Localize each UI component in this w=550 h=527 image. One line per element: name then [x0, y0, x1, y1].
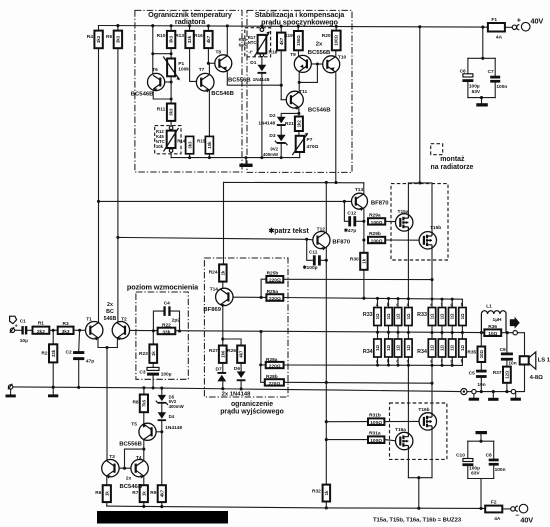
resistor R36: [484, 329, 501, 337]
wire R7 bottom: [143, 502, 145, 506]
svg-text:100Ω: 100Ω: [370, 420, 382, 426]
svg-text:+: +: [15, 323, 18, 329]
node R2 tap: [52, 329, 55, 332]
wire C10 C8 ground stem: [480, 434, 482, 441]
diode D6: [237, 371, 246, 381]
svg-text:R10: R10: [157, 33, 166, 39]
svg-text:na radiatorze: na radiatorze: [431, 164, 474, 171]
svg-text:R2: R2: [41, 351, 47, 357]
node C5 bottom: [480, 390, 483, 393]
resistor R20: [332, 31, 341, 51]
node T2 collector takeoff: [116, 236, 119, 239]
svg-text:R37: R37: [493, 370, 502, 376]
svg-text:100Ω: 100Ω: [371, 220, 383, 226]
svg-text:1Ω: 1Ω: [440, 345, 445, 351]
wire R28 jog: [261, 365, 265, 382]
node D1 bottom: [260, 156, 263, 159]
wire T12 base line: [118, 237, 313, 240]
wire bottom bracket: [468, 97, 495, 99]
transistor T12: [313, 232, 330, 251]
node clamp to T16b source: [430, 382, 433, 385]
transistor T13: [352, 193, 368, 211]
svg-text:T3: T3: [109, 454, 115, 460]
wire R26 branch: [223, 339, 241, 346]
transistor T10: [323, 56, 340, 73]
svg-text:2p2: 2p2: [172, 318, 181, 324]
wire base tie T3 T4: [115, 467, 131, 469]
svg-text:R28a: R28a: [266, 357, 278, 363]
transistor T8: [215, 55, 232, 72]
svg-text:2x: 2x: [316, 42, 323, 48]
resistor R29a: [368, 218, 385, 226]
node base tie: [316, 63, 319, 66]
wire R9 bottom: [161, 502, 163, 507]
wire R5 top stub: [117, 26, 119, 31]
wire C10 C8 top bracket: [468, 440, 494, 442]
wire R13 top stub: [189, 26, 191, 31]
node T9 emitter tap: [298, 81, 301, 84]
svg-text:R7: R7: [132, 490, 138, 496]
resistor R5: [114, 31, 122, 49]
svg-text:T6: T6: [152, 67, 158, 73]
svg-text:1k: 1k: [324, 490, 329, 495]
wire ground stem R2: [52, 387, 54, 394]
wire L1 loop: [481, 311, 506, 333]
svg-text:C8: C8: [486, 452, 492, 458]
wire T6 base lead: [160, 81, 171, 83]
wire T8 emitter L: [227, 71, 281, 85]
wire T2 emitter: [116, 338, 118, 347]
svg-text:✱patrz tekst: ✱patrz tekst: [269, 227, 310, 235]
svg-text:−: −: [515, 513, 519, 520]
wire upper source bus right: [283, 298, 462, 300]
bank letters bottom: [376, 359, 464, 364]
resistor R19: [294, 31, 303, 50]
svg-text:T12: T12: [317, 226, 326, 232]
svg-text:100Ω: 100Ω: [371, 238, 383, 244]
svg-text:7k5: 7k5: [142, 399, 147, 407]
node bracket stem: [480, 96, 483, 99]
svg-text:220Ω: 220Ω: [269, 278, 281, 284]
potentiometer P1: [163, 57, 180, 81]
node T11 emitter branch: [297, 112, 300, 115]
wire ground stem input: [10, 389, 12, 394]
svg-text:4k7: 4k7: [159, 489, 164, 497]
black bar bottom: [97, 511, 228, 524]
node tap right: [170, 52, 173, 55]
node R26 branch: [221, 337, 224, 340]
wire mirror link: [125, 449, 144, 468]
svg-text:h: h: [461, 359, 464, 364]
svg-text:R24: R24: [209, 270, 218, 276]
node D3 bottom: [280, 156, 283, 159]
svg-text:D3: D3: [269, 133, 275, 139]
wire R31b to T16b gate: [384, 420, 420, 422]
resistor R25a: [266, 294, 283, 302]
svg-text:220Ω: 220Ω: [269, 363, 281, 369]
fuse F1: [488, 23, 505, 32]
svg-text:470Ω: 470Ω: [307, 144, 319, 150]
svg-text:T16a: T16a: [395, 427, 406, 433]
wire C6 stem: [467, 58, 469, 74]
resistor R21: [295, 117, 303, 132]
svg-text:R26: R26: [227, 348, 236, 354]
wire R2 to 0V: [52, 362, 54, 387]
box R17 dashed: [245, 28, 271, 57]
svg-text:C5: C5: [469, 370, 475, 376]
wire ground stem c: [515, 392, 517, 398]
node R32 bottom: [325, 506, 328, 509]
svg-text:C6: C6: [460, 68, 466, 74]
svg-text:R1: R1: [38, 321, 44, 327]
svg-text:100µ: 100µ: [469, 465, 480, 471]
wire +40V top bus: [99, 26, 488, 28]
node R20 top: [335, 25, 338, 28]
svg-text:BC556B: BC556B: [228, 77, 251, 83]
node T6 base on P1-R11 line: [170, 80, 173, 83]
wire main output bus: [125, 330, 513, 332]
svg-text:✱100p: ✱100p: [303, 265, 318, 271]
wire T12 collector up: [325, 182, 327, 233]
wire C11 right lead: [321, 259, 327, 261]
svg-text:1Ω: 1Ω: [386, 345, 391, 351]
svg-text:d: d: [407, 302, 410, 307]
node ground mid stem: [492, 390, 495, 393]
wire +40V vertical to mosfet drains: [419, 27, 421, 183]
wire bottom bracket C10 C8: [468, 478, 494, 480]
plug tick top: [517, 25, 520, 30]
node R5 top: [116, 24, 119, 27]
wire lower source bus right: [284, 364, 463, 366]
svg-text:C9: C9: [500, 347, 506, 353]
box Ogranicznik temperatury radiatora: [135, 10, 242, 172]
resistor R18: [277, 33, 285, 51]
node C6 C7 branch: [481, 26, 484, 29]
svg-text:D4: D4: [169, 414, 175, 419]
svg-text:3k3: 3k3: [116, 35, 121, 43]
svg-text:10n: 10n: [477, 382, 485, 388]
wire T9 collector to R19: [298, 50, 300, 55]
resistor R6: [103, 485, 111, 502]
wire C3 to 0V: [152, 376, 154, 388]
node R31a tap: [325, 438, 328, 441]
wire R16 top stub: [207, 26, 209, 31]
thermistor R17: [254, 28, 269, 57]
svg-text:3k3: 3k3: [187, 141, 192, 149]
node R16 T7 collector T8 base: [207, 62, 210, 65]
capacitor C11: [313, 255, 321, 265]
node R18 top: [280, 25, 283, 28]
thermistor R12: [164, 126, 179, 152]
terminal +40V small: [512, 25, 516, 29]
wire R23 to C3: [152, 363, 154, 368]
node C11 tap: [305, 238, 308, 241]
wire T16b drain: [431, 430, 433, 478]
node R28b line cross: [325, 381, 328, 384]
bank stubs R34 bottoms: [378, 357, 463, 365]
wire D5 to D4: [161, 404, 163, 413]
wire C2 hang: [78, 330, 81, 351]
svg-text:4A: 4A: [496, 35, 503, 41]
wire return to terminal: [467, 391, 472, 393]
svg-text:prądu wyjściowego: prądu wyjściowego: [220, 408, 284, 415]
transistor T4: [131, 460, 148, 479]
svg-text:1Ω: 1Ω: [406, 313, 411, 319]
svg-text:1k: 1k: [104, 491, 109, 496]
bank stubs R33 bottoms to output: [378, 326, 463, 333]
node T6 collector top: [151, 24, 154, 27]
box Stabilizacja i kompensacja: [247, 10, 352, 172]
node R25 jog: [260, 296, 263, 299]
wire C1 to R1: [27, 329, 32, 331]
svg-text:L1: L1: [486, 303, 492, 309]
wire C12 right lead: [356, 220, 364, 222]
svg-text:BC546B: BC546B: [120, 484, 143, 490]
terminal +40V plug: [521, 22, 530, 31]
svg-text:C11: C11: [309, 250, 318, 256]
svg-text:R28b: R28b: [266, 374, 278, 380]
mosfet T16a: [396, 432, 413, 449]
ground bar top section: [239, 164, 252, 167]
svg-text:T16b: T16b: [418, 407, 429, 413]
wire T9 base to T10 base: [312, 63, 323, 65]
resistor R7: [140, 485, 148, 502]
resistor bank R33 e-h: [428, 308, 466, 326]
svg-text:g: g: [450, 359, 453, 364]
svg-text:BF870: BF870: [371, 200, 389, 206]
svg-text:T15a: T15a: [398, 209, 409, 215]
svg-text:R34: R34: [363, 349, 373, 355]
resistor R11: [167, 104, 175, 121]
wire R3 to T1 base: [74, 329, 86, 331]
node D5 top: [160, 386, 163, 389]
svg-text:R31a: R31a: [369, 431, 381, 437]
svg-text:1k2: 1k2: [296, 120, 301, 128]
resistor R8: [140, 395, 148, 413]
svg-text:100µ: 100µ: [161, 372, 172, 378]
capacitor C12: [348, 216, 356, 226]
wire R24 hang from bias rail: [223, 182, 225, 264]
node R2 bottom: [52, 386, 55, 389]
potentiometer P7: [292, 133, 308, 155]
svg-text:D7: D7: [216, 367, 222, 373]
wire R25b jog: [261, 279, 266, 297]
svg-text:BF870: BF870: [332, 240, 350, 246]
svg-text:b: b: [387, 359, 390, 364]
wire T4 emitter to R7: [143, 477, 145, 486]
wire R10 top stub: [170, 26, 172, 31]
wire R6 bottom: [106, 502, 108, 506]
node +40V branch: [418, 25, 421, 28]
svg-text:1k: 1k: [151, 351, 156, 356]
wire R14 bottom stub: [189, 154, 191, 158]
wire D3 bottom: [280, 144, 282, 158]
node R13 top: [188, 24, 191, 27]
svg-text:C7: C7: [488, 69, 494, 75]
wire tail down to T3: [106, 348, 108, 461]
resistor R22: [158, 328, 176, 336]
svg-text:d: d: [407, 359, 410, 364]
wire R10 bottom to P1: [170, 48, 172, 58]
wire D7 anode to 0V: [222, 381, 224, 388]
svg-text:K45: K45: [239, 37, 247, 42]
wire T5 emitter to R8: [143, 412, 145, 423]
resistor bank R34 a-d: [374, 339, 412, 357]
svg-text:1Ω: 1Ω: [460, 313, 465, 319]
svg-text:2x: 2x: [126, 476, 132, 482]
svg-text:C3: C3: [139, 370, 145, 376]
wire R8 stub: [143, 388, 145, 395]
wire speaker to return: [516, 364, 525, 391]
zener D3: [275, 135, 288, 146]
svg-text:1k: 1k: [220, 270, 225, 275]
wire T14 emitter down: [222, 305, 224, 345]
wire gate node vertical to R30: [363, 221, 365, 253]
svg-text:ograniczenie: ograniczenie: [231, 401, 273, 408]
terminal -40V plug: [519, 504, 528, 513]
wire D2 branch: [281, 113, 299, 116]
svg-text:3k3: 3k3: [169, 35, 174, 43]
svg-text:100Ω: 100Ω: [370, 438, 382, 444]
resistor R28b: [265, 379, 284, 387]
wire R24 to T14 collector: [222, 282, 224, 289]
node D7 on 0V: [221, 387, 224, 390]
wire T15b source down: [431, 249, 433, 299]
wire C9 to R37: [506, 361, 508, 367]
wire T16b source up: [431, 365, 433, 412]
resistor R3: [58, 327, 74, 335]
svg-text:R32: R32: [312, 489, 321, 495]
node R31b tap: [325, 420, 328, 423]
svg-text:150Ω: 150Ω: [296, 35, 301, 46]
svg-text:6x8: 6x8: [239, 43, 247, 48]
resistor R27: [219, 346, 227, 363]
wire R23 hang: [152, 331, 154, 345]
return terminal a: [472, 389, 476, 393]
node drain stem bottom: [417, 507, 420, 510]
svg-text:R21: R21: [285, 121, 294, 127]
wire R21 to P7: [298, 131, 300, 136]
bank letters top: [376, 302, 464, 307]
svg-text:1N4148: 1N4148: [253, 77, 270, 83]
node R14 bottom: [188, 156, 191, 159]
diode D1: [258, 65, 267, 74]
wire R31a to T16a gate: [384, 440, 396, 441]
node emitter join: [105, 346, 108, 349]
node C2 tap: [78, 329, 81, 332]
wire T16a drain: [407, 450, 409, 478]
return terminal b: [511, 389, 515, 393]
capacitor C5: [476, 370, 487, 378]
svg-text:1N4148: 1N4148: [258, 121, 275, 127]
svg-text:BC546B: BC546B: [211, 91, 234, 97]
wire C6 C7 tap: [482, 27, 484, 58]
wire P7 bottom: [299, 152, 301, 158]
wire T10 collector to R20: [335, 50, 337, 56]
mosfet T15a: [396, 214, 413, 231]
box montaz na radiatorze: [431, 144, 443, 155]
box mosfet T16a T16b: [390, 403, 447, 459]
wire R18 top stub: [280, 26, 282, 32]
node T4 collector join: [142, 448, 145, 451]
svg-text:F2: F2: [491, 500, 497, 506]
nodes source bus top: [376, 297, 454, 301]
wire T13 emitter: [363, 209, 365, 221]
resistor R2: [49, 344, 57, 362]
resistor bank R34 e-h: [428, 339, 466, 357]
wire R13 bottom to T7 base: [190, 48, 197, 81]
svg-text:2x: 2x: [107, 302, 113, 308]
node D6 on 0V: [240, 387, 243, 390]
transistor T11: [286, 91, 303, 110]
svg-text:R22: R22: [162, 322, 171, 328]
wire R25b sense line: [283, 278, 432, 280]
node base tie bottom: [123, 467, 126, 470]
wire R31a left lead: [326, 439, 368, 441]
wire return bus: [476, 391, 511, 393]
wire T2 load line R5: [117, 48, 119, 322]
svg-text:2k2: 2k2: [37, 329, 45, 335]
wire R19 top stub: [297, 26, 299, 31]
wire T5 collector down: [143, 440, 145, 449]
node L1 left: [480, 331, 483, 334]
diode D4: [158, 412, 167, 421]
svg-text:P1: P1: [178, 61, 184, 67]
node drain join: [417, 476, 420, 479]
wire D1 cathode down: [261, 74, 263, 158]
capacitor C8: [489, 459, 499, 466]
svg-text:10k: 10k: [207, 141, 212, 149]
node T6 emitter join: [170, 98, 173, 101]
wire R1 to R3: [49, 329, 57, 331]
svg-text:D2: D2: [269, 113, 275, 119]
svg-text:33k: 33k: [51, 349, 56, 357]
svg-text:10Ω: 10Ω: [479, 350, 484, 359]
node R36 right: [506, 331, 509, 334]
resistor R29b: [368, 237, 385, 245]
node C4 R22 left: [152, 329, 155, 332]
wire T7 collector: [208, 63, 210, 74]
capacitor C9: [501, 353, 513, 361]
svg-text:100n: 100n: [495, 467, 506, 473]
wire -40V bottom rail: [107, 506, 485, 508]
svg-text:1Ω: 1Ω: [450, 313, 455, 319]
svg-text:400mW: 400mW: [263, 152, 279, 157]
svg-text:T4: T4: [136, 455, 142, 461]
nodes output bus: [376, 331, 464, 334]
node C10 C8 top: [479, 440, 482, 443]
mosfet T15b: [419, 232, 436, 249]
resistor R28a: [266, 362, 284, 370]
svg-text:C2: C2: [66, 350, 72, 356]
box mosfet T15a T15b: [391, 184, 448, 260]
wire P1 bottom to R11: [170, 76, 172, 103]
svg-text:BC556B: BC556B: [308, 50, 331, 56]
svg-text:✱47p: ✱47p: [344, 228, 356, 234]
node T15b source sense: [430, 278, 433, 281]
ground bar C10: [476, 431, 488, 434]
svg-text:1Ω: 1Ω: [396, 313, 401, 319]
svg-text:T1: T1: [86, 316, 92, 322]
node R16 top: [207, 24, 210, 27]
svg-text:-t°: -t°: [248, 50, 253, 55]
svg-text:D6: D6: [234, 366, 240, 372]
node C11 emitter side: [325, 259, 328, 262]
bank stubs R33 tops: [378, 298, 463, 307]
resistor R30: [360, 253, 367, 270]
wire T1 emitter: [98, 338, 117, 347]
wire R35 to C5: [480, 362, 482, 370]
